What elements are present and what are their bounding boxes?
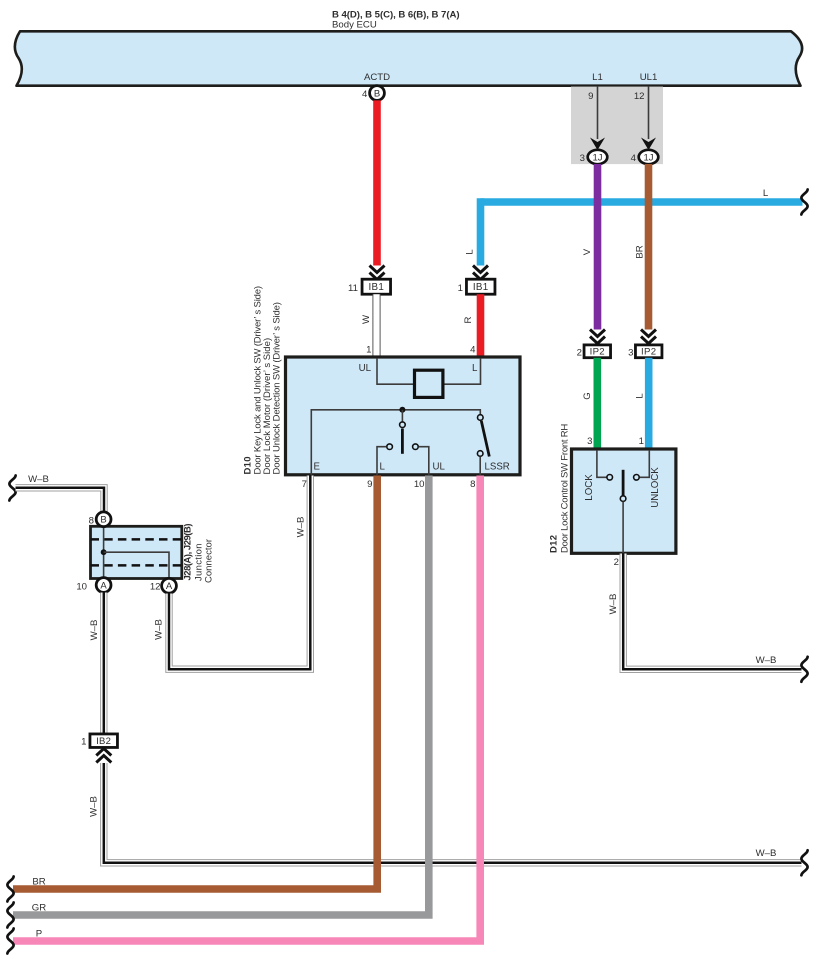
svg-text:LSSR: LSSR [485,462,510,473]
svg-text:L: L [465,249,476,255]
svg-text:G: G [582,392,593,399]
svg-text:J28(A), J29(B): J28(A), J29(B) [183,524,194,581]
svg-text:UL: UL [433,462,446,473]
svg-text:W–B: W–B [296,517,307,538]
svg-text:12: 12 [150,582,161,593]
svg-text:8: 8 [89,516,94,527]
svg-text:1J: 1J [643,152,653,163]
svg-text:12: 12 [634,91,645,102]
svg-text:IP2: IP2 [590,347,605,358]
svg-text:IB1: IB1 [368,282,384,293]
svg-text:IP2: IP2 [641,347,656,358]
svg-text:W–B: W–B [89,796,100,817]
svg-text:8: 8 [470,479,475,490]
svg-text:W–B: W–B [608,594,619,615]
svg-text:R: R [463,316,474,323]
svg-text:Door Unlock Detection SW (Driv: Door Unlock Detection SW (Driver’ s Side… [272,302,283,474]
svg-text:7: 7 [302,479,307,490]
svg-text:9: 9 [367,479,372,490]
svg-text:L: L [380,462,386,473]
svg-text:UL1: UL1 [640,72,658,83]
svg-text:2: 2 [577,348,582,359]
svg-text:9: 9 [588,91,593,102]
svg-text:1J: 1J [592,152,602,163]
svg-text:A: A [100,580,107,591]
svg-text:1: 1 [366,345,371,356]
svg-text:BR: BR [32,877,45,888]
svg-text:UNLOCK: UNLOCK [650,467,661,508]
svg-text:3: 3 [587,436,592,447]
svg-text:BR: BR [635,245,646,258]
svg-text:L: L [763,188,769,199]
svg-text:P: P [36,929,42,940]
svg-text:UL: UL [359,363,372,374]
svg-text:ACTD: ACTD [364,72,390,83]
svg-text:4: 4 [631,153,637,164]
svg-text:10: 10 [76,582,87,593]
svg-text:1: 1 [639,436,644,447]
svg-text:W–B: W–B [154,619,165,640]
svg-text:10: 10 [414,479,425,490]
svg-text:W–B: W–B [756,655,777,666]
svg-text:3: 3 [580,153,585,164]
svg-text:Connector: Connector [204,539,215,583]
svg-text:Door Lock Control SW Front RH: Door Lock Control SW Front RH [560,424,571,553]
svg-text:Body ECU: Body ECU [332,19,377,30]
svg-text:B: B [374,88,380,99]
svg-text:11: 11 [348,283,358,294]
svg-text:W–B: W–B [756,848,777,859]
svg-text:L: L [472,363,478,374]
svg-text:V: V [582,248,593,255]
svg-text:4: 4 [470,345,476,356]
svg-text:W: W [361,314,372,324]
svg-text:2: 2 [614,557,619,568]
svg-text:4: 4 [362,89,368,100]
svg-text:1: 1 [458,283,463,294]
svg-text:IB2: IB2 [96,736,111,747]
svg-text:L: L [635,393,646,399]
svg-text:W–B: W–B [89,620,100,641]
svg-text:A: A [166,581,173,592]
svg-text:D12: D12 [549,535,560,553]
svg-text:IB1: IB1 [473,282,489,293]
svg-text:L1: L1 [592,72,603,83]
svg-text:GR: GR [32,903,46,914]
svg-text:3: 3 [628,348,633,359]
svg-text:E: E [314,462,321,473]
svg-text:LOCK: LOCK [584,474,595,501]
svg-text:B: B [100,515,106,526]
svg-text:1: 1 [81,736,86,747]
svg-text:W–B: W–B [28,474,49,485]
